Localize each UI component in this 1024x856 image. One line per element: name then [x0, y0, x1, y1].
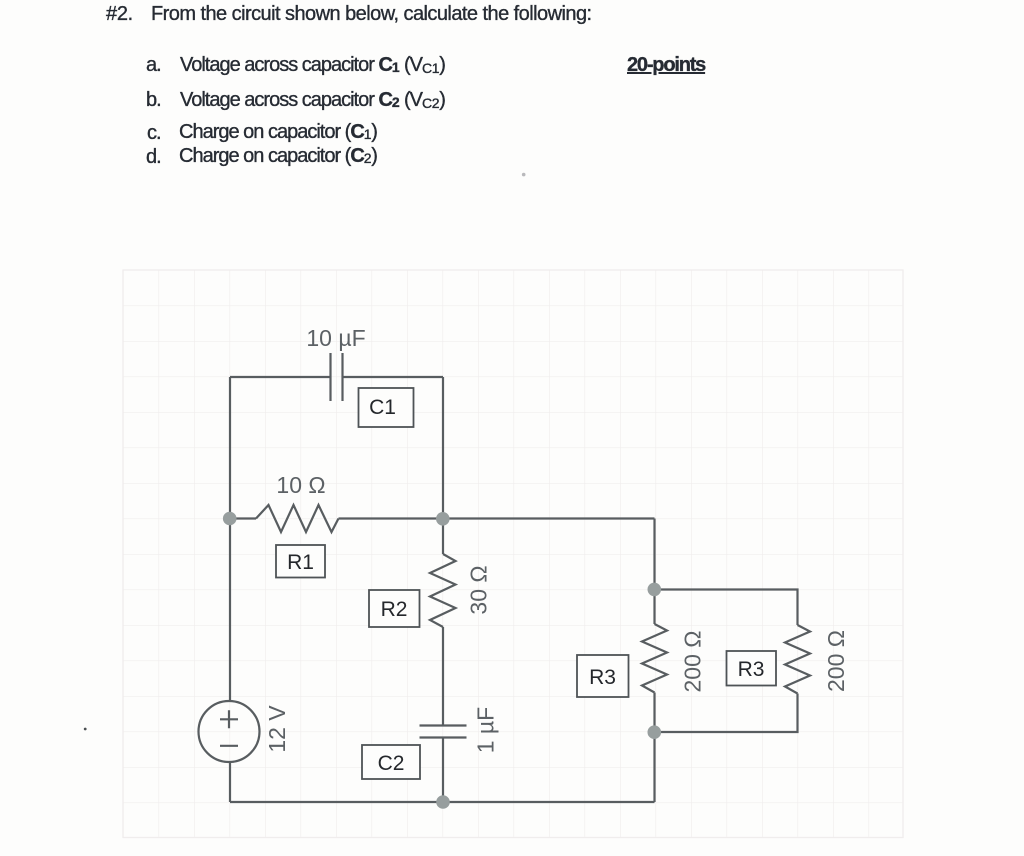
svg-text:C2: C2: [378, 752, 405, 775]
wire parallel branch top: [655, 590, 798, 626]
voltage source minus sign: [220, 745, 238, 747]
wire mid horizontal left: [230, 517, 256, 519]
svg-text:200 Ω: 200 Ω: [823, 630, 849, 692]
wire R2 to C2: [442, 627, 444, 725]
node D (R3 bottom junction): [648, 725, 662, 739]
svg-text:R3: R3: [589, 666, 616, 689]
wire R2 upper stub: [442, 519, 444, 555]
voltage source V1 circle: [199, 701, 260, 762]
resistor R2: [430, 554, 456, 627]
label box R2: [369, 590, 420, 627]
svg-text:200 Ω: 200 Ω: [680, 631, 706, 693]
wire C2 to bottom: [442, 738, 444, 803]
item d: [146, 146, 161, 169]
capacitor C2 bottom plate: [420, 736, 467, 738]
wire mid horizontal right: [339, 517, 655, 519]
wire R3a upper stub: [653, 590, 655, 625]
resistor R3 left: [642, 624, 667, 693]
svg-text:R2: R2: [381, 598, 408, 621]
node B (R2 top junction): [436, 512, 450, 526]
node A (left mid junction): [223, 512, 237, 526]
capacitor C1 left plate: [329, 353, 331, 401]
wire top-left segment: [230, 376, 331, 378]
node C (R3 top junction): [648, 583, 662, 597]
20-points: [627, 54, 705, 77]
svg-text:R1: R1: [287, 551, 314, 574]
svg-text:12 V: 12 V: [264, 705, 290, 753]
wire R3a lower stub: [653, 693, 655, 733]
voltage source plus sign: [220, 710, 238, 728]
label box R3 right: [727, 651, 777, 686]
svg-text:C1: C1: [369, 396, 396, 419]
graph paper background: [123, 270, 903, 838]
svg-text:10 µF: 10 µF: [306, 325, 365, 351]
label box C2: [362, 745, 420, 779]
wire parallel branch bottom: [655, 694, 798, 733]
wire right vertical upper: [442, 377, 444, 519]
svg-text:R3: R3: [738, 658, 765, 681]
svg-text:1 µF: 1 µF: [473, 707, 499, 753]
item a: [146, 54, 161, 77]
heading line: [106, 3, 133, 26]
item c: [147, 122, 161, 145]
wire right branch vertical upper: [653, 519, 655, 590]
capacitor C2 top plate: [420, 724, 467, 726]
svg-text:10 Ω: 10 Ω: [276, 472, 325, 498]
wire left vertical: [229, 377, 231, 702]
wire left vertical lower: [229, 762, 231, 803]
label box R3 left: [577, 655, 629, 697]
label box R1: [276, 545, 325, 578]
label box C1: [359, 388, 414, 427]
item b: [146, 89, 161, 112]
node E (bottom wire junction): [436, 795, 450, 809]
wire bottom horizontal: [230, 801, 655, 803]
wire top-right segment: [343, 376, 444, 378]
resistor R1: [256, 505, 339, 532]
capacitor C1 right plate: [341, 353, 343, 401]
resistor R3 right: [785, 625, 810, 694]
svg-text:30 Ω: 30 Ω: [466, 565, 492, 614]
wire right branch vertical lower: [653, 732, 655, 802]
